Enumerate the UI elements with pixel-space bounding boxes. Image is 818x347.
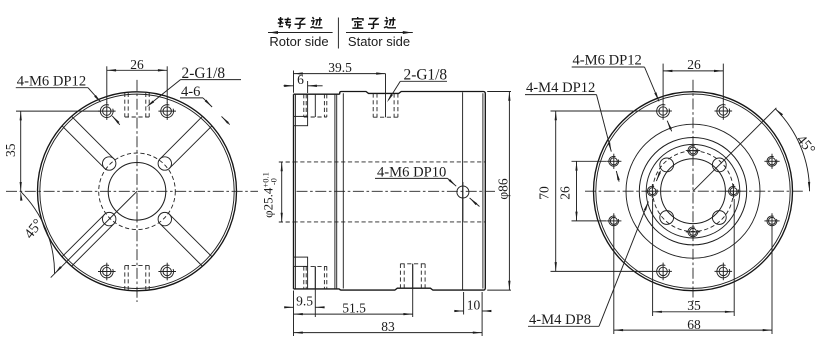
right view dim 26 text bbox=[687, 57, 701, 72]
middle view phi25.4 text bbox=[261, 172, 279, 218]
middle view dim 39.5 line bbox=[294, 72, 386, 74]
middle view rotor G1/8 port bottom (hidden) bbox=[304, 266, 327, 289]
svg-text:39.5: 39.5 bbox=[328, 60, 352, 75]
middle view phi25.4 dim line bbox=[281, 162, 283, 222]
right view label 4-M4 DP12 bbox=[525, 80, 597, 96]
left view dim 35 extension line bbox=[16, 110, 100, 112]
right view dim 26 line bbox=[663, 70, 723, 72]
middle view dim 10 line bbox=[454, 310, 491, 312]
middle view flange right face lower bbox=[307, 266, 309, 289]
right view M6 DP12 hole top-right bbox=[715, 102, 733, 120]
svg-text:10: 10 bbox=[467, 297, 481, 312]
right view M6 DP12 hole bottom-right bbox=[715, 263, 733, 281]
right view 45-deg dimension arc bbox=[775, 109, 810, 191]
right view label 4-M6 DP12 bbox=[572, 52, 645, 68]
left view label 2-G1/8 bbox=[181, 65, 242, 82]
right view through hole upper-right bbox=[712, 158, 726, 172]
left view dim 35 text bbox=[3, 143, 18, 157]
svg-text:51.5: 51.5 bbox=[342, 300, 366, 315]
middle view phi86 extension lines bbox=[487, 92, 511, 291]
left view slot width arrows bbox=[203, 98, 230, 125]
right view M6 DP12 hole top-left bbox=[654, 102, 672, 120]
middle view dim 9.5 ext lines bbox=[294, 266, 316, 336]
svg-text:4-M6 DP12: 4-M6 DP12 bbox=[17, 73, 86, 89]
right view horizontal centerline bbox=[585, 190, 804, 192]
middle view dim 10 ext line bbox=[463, 292, 465, 315]
right view 45-deg label bbox=[793, 132, 818, 158]
middle view flange top edge bbox=[294, 93, 340, 95]
right view dim 26 ext lines bbox=[663, 64, 723, 102]
left view leader to G1/8 port bbox=[146, 80, 180, 108]
middle view phi86 text bbox=[495, 178, 510, 200]
right view M4 DP8 hole left bbox=[645, 184, 659, 198]
right view dim 26v text bbox=[558, 186, 573, 200]
svg-text:φ25.4+0.1-0: φ25.4+0.1-0 bbox=[261, 172, 279, 218]
header stator arrow line bbox=[346, 31, 413, 34]
middle view dim 39.5 ext right bbox=[385, 74, 387, 94]
middle view dim 83 ext line right bbox=[481, 292, 483, 336]
middle view stator G1/8 port top (hidden) bbox=[373, 93, 398, 117]
middle view stator body outline bbox=[340, 92, 486, 291]
svg-text:26: 26 bbox=[558, 186, 573, 200]
right view M4 DP12 hole left-top bbox=[606, 154, 621, 169]
middle view flange right face upper bbox=[307, 94, 309, 116]
middle view dim 6 extension lines bbox=[294, 71, 308, 94]
left view outer circle (rotor flange OD) bbox=[38, 92, 237, 291]
svg-text:70: 70 bbox=[537, 186, 552, 200]
right view dim 26v line bbox=[575, 161, 577, 221]
middle view dim 83 line bbox=[294, 332, 483, 334]
middle view phi86 dim line bbox=[508, 92, 510, 291]
left view rim circle bbox=[40, 94, 234, 288]
middle view flange channel box top bbox=[294, 116, 308, 125]
right view leader to M4 DP8 hole bbox=[599, 171, 661, 326]
left view dim 26 line bbox=[107, 69, 167, 71]
header chinese stator-side (ding zi bian) bbox=[352, 17, 396, 28]
left view vertical centerline bbox=[136, 80, 138, 302]
left view M6 hole top-right bbox=[158, 102, 176, 120]
right view dim 68 line bbox=[614, 329, 772, 331]
middle view dim 6 text bbox=[297, 72, 304, 87]
left view M6 hole top-left bbox=[98, 102, 116, 120]
right view dim 70 line bbox=[555, 111, 557, 271]
svg-text:4-M6 DP12: 4-M6 DP12 bbox=[573, 52, 642, 68]
middle view body chamfer lines bbox=[343, 93, 483, 288]
middle view label 4-M6 DP10 bbox=[375, 164, 448, 180]
right view M4 DP8 hole right bbox=[726, 184, 740, 198]
left view center bore circle bbox=[108, 163, 166, 221]
right view bolt circle (dashed) bbox=[653, 151, 734, 232]
middle view end seam line bbox=[462, 92, 464, 289]
right view leader to M4 DP12 hole bbox=[597, 95, 620, 182]
svg-text:φ86: φ86 bbox=[495, 178, 510, 200]
middle view rotor G1/8 port top (hidden) bbox=[304, 94, 327, 117]
right view dim 35 ext lines bbox=[653, 199, 735, 316]
svg-text:45°: 45° bbox=[21, 216, 46, 242]
left view bolt circle (dashed) bbox=[99, 153, 176, 230]
header stator side text bbox=[348, 34, 410, 49]
svg-text:4-M4 DP12: 4-M4 DP12 bbox=[526, 80, 595, 96]
right view dim 35 text bbox=[687, 298, 701, 313]
middle view dim 10 text bbox=[467, 297, 481, 312]
right view M6 DP12 hole bottom-left bbox=[654, 263, 672, 281]
svg-text:9.5: 9.5 bbox=[296, 294, 313, 309]
middle view dim 6 line bbox=[284, 85, 323, 87]
left view G1/8 port top (hidden) bbox=[125, 93, 149, 117]
right view dim 26v ext lines bbox=[572, 161, 607, 221]
left view G1/8 port bottom (hidden) bbox=[125, 266, 149, 290]
right view dim 68 ext lines bbox=[614, 228, 772, 334]
left view 45-deg radial line bbox=[51, 191, 137, 277]
left view slot at 135 deg bbox=[62, 117, 116, 171]
right view dim 35 line bbox=[653, 311, 735, 313]
left view slot at 315 deg bbox=[158, 212, 212, 266]
middle view leader to M6 DP10 bbox=[448, 178, 480, 206]
svg-text:26: 26 bbox=[130, 57, 144, 72]
left view horizontal centerline bbox=[6, 190, 258, 192]
right view M4 DP12 hole right-bottom bbox=[764, 213, 779, 228]
right view through hole upper-left bbox=[660, 158, 674, 172]
header chinese rotor-side (zhuan zi bian) bbox=[278, 17, 323, 28]
right view M4 DP12 hole left-bottom bbox=[606, 213, 621, 228]
left view slot at 225 deg bbox=[62, 212, 116, 266]
right view dim 68 text bbox=[687, 317, 701, 332]
middle view dim 9.5 text bbox=[296, 294, 313, 309]
middle view M6 DP10 hole bbox=[457, 182, 469, 222]
svg-text:Stator side: Stator side bbox=[348, 34, 410, 49]
middle view dim 83 text bbox=[381, 319, 395, 334]
right view leader to M6 hole bbox=[645, 67, 672, 131]
middle view phi25.4 extension dashes bbox=[279, 162, 295, 222]
right view M4 DP12 hole right-top bbox=[764, 154, 779, 169]
middle view dim 51.5 ext line bbox=[412, 264, 414, 317]
left view 45-deg label bbox=[21, 216, 46, 242]
left view dim 35 line bbox=[20, 111, 22, 191]
left view leader to M6 hole bbox=[88, 88, 120, 125]
right view bore circle bbox=[661, 159, 726, 224]
middle view horizontal centerline bbox=[297, 190, 496, 192]
right view M4 DP8 hole bottom bbox=[686, 225, 700, 239]
middle view rotor flange left face bbox=[294, 94, 296, 289]
right view outer circle (stator body OD) bbox=[594, 92, 793, 291]
svg-text:68: 68 bbox=[687, 317, 701, 332]
middle view dim 39.5 text bbox=[328, 60, 352, 75]
svg-text:83: 83 bbox=[381, 319, 395, 334]
middle view dim 9.5 line bbox=[284, 306, 324, 308]
middle view hub seam lines bbox=[335, 94, 337, 289]
middle view flange bottom edge bbox=[294, 288, 340, 290]
left view M6 hole bottom-left bbox=[98, 263, 116, 281]
svg-text:35: 35 bbox=[687, 298, 701, 313]
middle view dim 51.5 line bbox=[294, 313, 413, 315]
left view label 4-6 bbox=[180, 84, 203, 100]
right view through hole lower-left bbox=[660, 211, 674, 225]
middle view stator G1/8 port bottom (hidden) bbox=[400, 264, 425, 288]
right view hub outer circle bbox=[639, 138, 746, 245]
left view dim 26 text bbox=[130, 57, 144, 72]
left view label 4-M6 DP12 bbox=[16, 73, 88, 89]
right view boss circle bbox=[626, 124, 760, 258]
right view M4 DP8 hole top bbox=[686, 143, 700, 157]
header separator line bbox=[337, 18, 339, 49]
middle view dim 51.5 text bbox=[342, 300, 366, 315]
right view dim 70 text bbox=[537, 186, 552, 200]
svg-text:4-M6 DP10: 4-M6 DP10 bbox=[377, 164, 446, 180]
left view dim 26 extension lines bbox=[107, 66, 167, 103]
right view rim circle bbox=[596, 94, 790, 288]
middle view bore hidden lines bbox=[294, 162, 486, 222]
svg-text:45°: 45° bbox=[793, 132, 818, 158]
middle view label 2-G1/8 bbox=[400, 67, 447, 84]
right view hub inner circle bbox=[646, 144, 740, 238]
right view through hole lower-right bbox=[712, 211, 726, 225]
middle view flange channel box bottom bbox=[294, 257, 308, 266]
right view 45-deg radial line bbox=[693, 108, 776, 191]
right view label 4-M4 DP8 bbox=[528, 312, 599, 328]
right view vertical centerline bbox=[692, 80, 694, 302]
svg-text:Rotor side: Rotor side bbox=[269, 34, 328, 49]
left view slot at 45 deg bbox=[158, 117, 212, 171]
svg-text:35: 35 bbox=[3, 143, 18, 157]
header rotor side text bbox=[269, 34, 328, 49]
middle view leader to stator port bbox=[387, 81, 400, 102]
left view 45-deg dimension arc bbox=[20, 191, 62, 273]
right view dim 70 ext lines bbox=[551, 111, 656, 271]
header rotor arrow line bbox=[268, 31, 333, 34]
svg-text:26: 26 bbox=[687, 57, 701, 72]
left view M6 hole bottom-right bbox=[158, 263, 176, 281]
svg-text:4-M4 DP8: 4-M4 DP8 bbox=[529, 312, 591, 328]
